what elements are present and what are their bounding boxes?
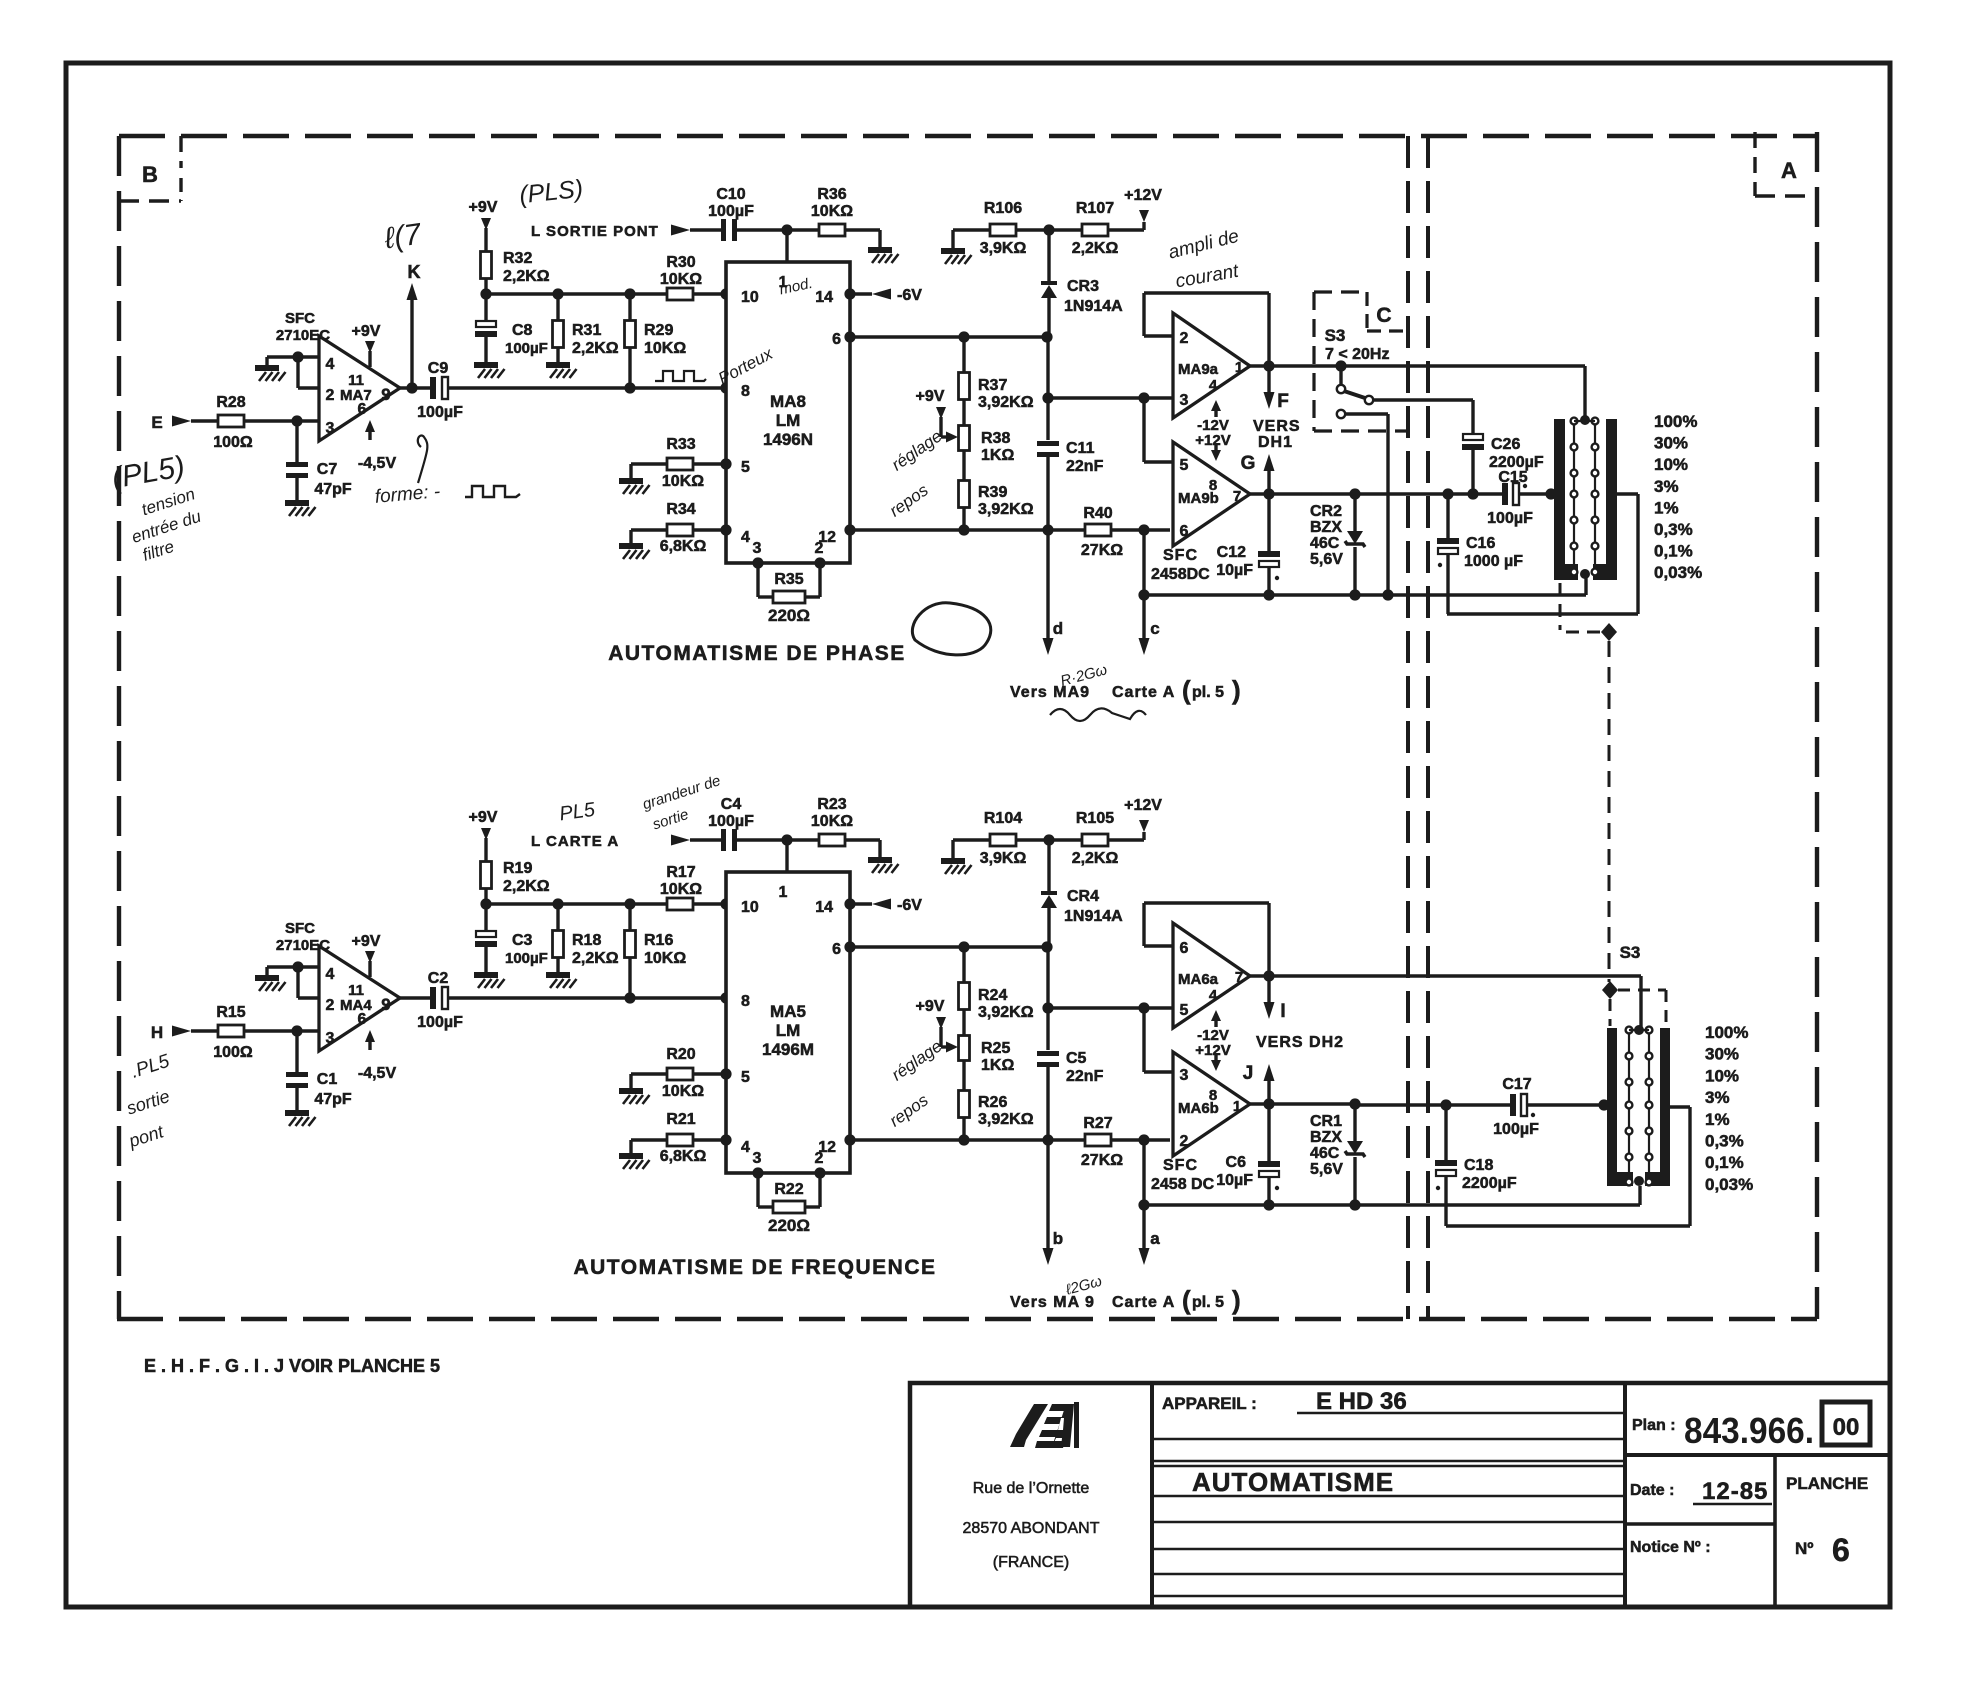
svg-text:6,8KΩ: 6,8KΩ: [660, 538, 707, 555]
svg-text:C12: C12: [1217, 544, 1246, 561]
capacitor C3 100uF (decoupling): [484, 904, 487, 933]
svg-text:R17: R17: [666, 864, 695, 881]
resistor R30 10K (pin10 series): [667, 288, 693, 300]
node at op-amp input: [291, 1025, 302, 1036]
bottom selector contact circles: [1626, 1027, 1633, 1034]
svg-text:2458DC: 2458DC: [1151, 566, 1210, 583]
svg-text:2: 2: [326, 387, 335, 404]
region label B box: [179, 136, 182, 168]
svg-text:VERS DH2: VERS DH2: [1256, 1034, 1344, 1051]
svg-text:R19: R19: [503, 860, 532, 877]
wire R to op-amp pin: [1112, 528, 1170, 531]
svg-text:R15: R15: [216, 1004, 245, 1021]
svg-text:R39: R39: [978, 484, 1007, 501]
capacitor C2 100uF (coupling): [430, 987, 436, 1009]
svg-text:MA7: MA7: [340, 387, 372, 404]
capacitor C5 22nF: [1046, 947, 1049, 1050]
svg-text:C16: C16: [1466, 535, 1495, 552]
wire to diode node: [1016, 838, 1082, 841]
svg-text:2,2KΩ: 2,2KΩ: [572, 340, 619, 357]
svg-text:1N914A: 1N914A: [1064, 298, 1123, 315]
svg-text:Vers MA9: Vers MA9: [1010, 684, 1090, 701]
svg-text:220Ω: 220Ω: [768, 1216, 810, 1235]
capacitor C12 10uF: [1267, 494, 1270, 551]
resistor R18 2,2K (vertical shunt): [556, 904, 559, 931]
svg-text:100µF: 100µF: [1493, 1121, 1539, 1138]
capacitor C6 10uF: [1267, 1104, 1270, 1161]
svg-text:5: 5: [1180, 457, 1189, 474]
mechanical link dashes from top selector: [1559, 583, 1562, 630]
svg-text:2: 2: [815, 1150, 824, 1167]
wire MA6b output to C17: [1355, 1103, 1510, 1106]
svg-text:2: 2: [1180, 1133, 1189, 1150]
wire C15 to divider switch: [1519, 492, 1554, 495]
svg-text:22nF: 22nF: [1066, 1068, 1104, 1085]
bus wire to pin 10 resistor: [486, 902, 667, 905]
resistor R15 100 ohm: [218, 1025, 244, 1037]
svg-text:10: 10: [741, 289, 759, 306]
svg-text:100µF: 100µF: [708, 203, 754, 220]
svg-text:47pF: 47pF: [314, 1091, 352, 1108]
svg-text:C1: C1: [317, 1071, 338, 1088]
svg-text:MA8: MA8: [770, 392, 806, 411]
svg-text:10KΩ: 10KΩ: [811, 813, 853, 830]
wire R to bus node: [484, 888, 487, 904]
ground below input capacitor: [285, 500, 309, 506]
bottom selector top node: [1634, 1025, 1644, 1035]
svg-text:1: 1: [1235, 359, 1243, 376]
resistor R32 2,2K (vertical): [481, 252, 492, 279]
wire coupling cap to IC pin 8: [448, 996, 726, 999]
svg-text:3: 3: [753, 1150, 762, 1167]
svg-text:10: 10: [741, 899, 759, 916]
svg-text:4: 4: [741, 1139, 750, 1156]
capacitor C26 2200uF: [1463, 434, 1483, 440]
svg-text:(: (: [1182, 675, 1191, 705]
svg-text:12-85: 12-85: [1702, 1478, 1768, 1505]
svg-text:BZX: BZX: [1310, 519, 1342, 536]
resistor R19 2,2K (vertical): [481, 862, 492, 889]
capacitor C18 2200uF: [1444, 1105, 1447, 1160]
pin 6 node: [844, 941, 855, 952]
svg-text:R104: R104: [984, 810, 1022, 827]
wire MA9a output to S3 and servo: [1269, 364, 1585, 367]
wire coupling cap to IC pin 8: [448, 386, 726, 389]
wire pin 6 bus: [850, 335, 1047, 338]
svg-text:L CARTE A: L CARTE A: [531, 833, 619, 850]
svg-text:SFC: SFC: [285, 920, 315, 937]
divider switch right contact chain: [1594, 421, 1596, 575]
svg-text:Notice Nº :: Notice Nº :: [1630, 1539, 1711, 1556]
diode CR3 1N914A: [1047, 230, 1050, 281]
resistor R16 10K (vertical to pin 8): [628, 904, 631, 931]
svg-text:2: 2: [1180, 330, 1189, 347]
svg-text:1KΩ: 1KΩ: [981, 1057, 1014, 1074]
svg-text:4: 4: [326, 356, 335, 373]
IC MA5 (LM 1496M): [726, 872, 850, 1173]
svg-text:4: 4: [326, 966, 335, 983]
resistor R23 10K: [819, 834, 845, 846]
svg-text:2,2KΩ: 2,2KΩ: [1072, 240, 1119, 257]
svg-text:3,92KΩ: 3,92KΩ: [978, 1004, 1034, 1021]
resistor R26 3,92K (vertical): [962, 1061, 965, 1091]
op-amp MA6b (lower): [1173, 1052, 1250, 1156]
wire C17 to selector: [1527, 1103, 1607, 1106]
svg-text:R29: R29: [644, 322, 673, 339]
pin 12 bus: [844, 524, 855, 535]
wire cap to R and pin 1 node: [737, 838, 819, 841]
svg-text:47pF: 47pF: [314, 481, 352, 498]
svg-text:C18: C18: [1464, 1157, 1493, 1174]
divider switch left contact chain: [1573, 421, 1575, 575]
svg-text:3%: 3%: [1654, 477, 1679, 496]
handwritten loop doodle: [912, 603, 990, 655]
svg-text:R27: R27: [1083, 1115, 1112, 1132]
svg-text:AUTOMATISME DE PHASE: AUTOMATISME DE PHASE: [608, 642, 906, 665]
svg-text:10KΩ: 10KΩ: [660, 881, 702, 898]
svg-text:100Ω: 100Ω: [213, 434, 253, 451]
svg-text:3: 3: [1180, 392, 1189, 409]
divider switch S3 left winding bar: [1554, 419, 1565, 577]
resistor R106 3,9K: [990, 224, 1016, 236]
ground below shunt resistor: [546, 362, 570, 368]
ground right of top resistor: [868, 857, 892, 863]
LEA logo: [1010, 1402, 1079, 1448]
bottom selector contact chains: [1628, 1030, 1630, 1184]
resistor R33 10K at pin 5: [631, 462, 667, 465]
capacitor C1 47pF: [295, 1031, 298, 1072]
svg-text:APPAREIL :: APPAREIL :: [1162, 1394, 1257, 1413]
svg-text:3%: 3%: [1705, 1088, 1730, 1107]
title block frame: [910, 1383, 1890, 1607]
diode CR4 1N914A: [1047, 840, 1050, 891]
svg-text:100µF: 100µF: [505, 950, 548, 967]
svg-text:R24: R24: [978, 987, 1007, 1004]
resistor R35 220 ohm between pins 3 and 2: [752, 557, 763, 568]
svg-text:E . H . F . G . I . J VOIR: E . H . F . G . I . J VOIR PLANCHE 5: [144, 1356, 440, 1376]
svg-text:2: 2: [326, 997, 335, 1014]
resistor R39 3,92K (vertical): [962, 451, 965, 481]
svg-text:pl. 5: pl. 5: [1192, 684, 1224, 701]
svg-text:MA4: MA4: [340, 997, 372, 1014]
svg-text:Vers MA 9: Vers MA 9: [1010, 1294, 1095, 1311]
resistor R37 3,92K (vertical): [962, 337, 965, 373]
op-amp MA7 (SFC 2710EC): [319, 336, 400, 441]
svg-text:Date :: Date :: [1630, 1482, 1674, 1499]
wire MA6a output to bottom servo: [1269, 974, 1641, 977]
arrow J: [1267, 1078, 1270, 1104]
svg-text:2710EC: 2710EC: [276, 937, 330, 954]
svg-text:C7: C7: [317, 461, 338, 478]
svg-text:L SORTIE PONT: L SORTIE PONT: [531, 223, 659, 240]
op-amp MA9b (lower): [1173, 442, 1250, 546]
svg-text:(FRANCE): (FRANCE): [993, 1554, 1069, 1571]
svg-text:100µF: 100µF: [505, 340, 548, 357]
ground left of 3,9K resistor: [953, 838, 990, 841]
resistor R28 100 ohm: [218, 415, 244, 427]
wire R to ground stub: [845, 838, 880, 841]
svg-text:C9: C9: [428, 360, 449, 377]
svg-text:+12V: +12V: [1195, 1042, 1230, 1059]
handwritten scribble under Carte A (top): [1050, 708, 1146, 721]
ground at pin-4 resistor: [619, 1153, 643, 1159]
divider switch contact circles: [1571, 418, 1578, 425]
svg-text:R26: R26: [978, 1094, 1007, 1111]
bottom rail riser to selector: [1638, 1186, 1641, 1205]
wire pin4 to pin2 link: [296, 967, 299, 998]
svg-text:AUTOMATISME DE FREQUENCE: AUTOMATISME DE FREQUENCE: [573, 1256, 936, 1279]
svg-text:9: 9: [381, 385, 390, 404]
svg-text:10KΩ: 10KΩ: [660, 271, 702, 288]
svg-text:C2: C2: [428, 970, 449, 987]
svg-text:R35: R35: [774, 571, 803, 588]
svg-text:7: 7: [1233, 488, 1241, 505]
svg-text:2458 DC: 2458 DC: [1151, 1176, 1215, 1193]
arrow F vers DH: [1267, 366, 1270, 395]
link to lower op-amp + input: [1142, 1008, 1145, 1072]
svg-text:8: 8: [1209, 1087, 1217, 1104]
mechanical link fork dashes: [1609, 999, 1612, 1026]
op-amp MA9a (upper): [1173, 313, 1250, 418]
svg-text:R16: R16: [644, 932, 673, 949]
region label A box: [1753, 132, 1756, 196]
bus wire to pin 10 resistor: [486, 292, 667, 295]
svg-text:PLANCHE: PLANCHE: [1786, 1474, 1868, 1493]
svg-text:E: E: [151, 413, 162, 432]
svg-text:7: 7: [1235, 969, 1243, 986]
svg-text:R107: R107: [1076, 200, 1114, 217]
potentiometer R38 1K: [962, 400, 965, 426]
potentiometer R25 1K: [962, 1010, 965, 1036]
svg-text:1000 µF: 1000 µF: [1464, 553, 1523, 570]
op-amp MA6b output wire: [1250, 1102, 1355, 1105]
svg-text:1N914A: 1N914A: [1064, 908, 1123, 925]
title block divider appareil|plan: [1623, 1383, 1627, 1607]
wire input to R: [191, 1029, 218, 1032]
title block divider date|planche: [1773, 1455, 1777, 1607]
capacitor C17 100uF: [1510, 1094, 1516, 1116]
svg-text:27KΩ: 27KΩ: [1081, 1152, 1123, 1169]
wire cap to R and pin 1 node: [737, 228, 819, 231]
arrow K (to planche 5): [410, 297, 413, 388]
svg-text:3: 3: [753, 540, 762, 557]
mechanical link diamond node: [1601, 623, 1617, 641]
svg-text:R33: R33: [666, 436, 695, 453]
rail to divider bottom: [1584, 577, 1587, 595]
square wave doodle near pin 8: [655, 371, 706, 381]
wire R to op-amp pin 3: [244, 419, 319, 422]
pin 14 -6V stub: [844, 898, 855, 909]
svg-text:6,8KΩ: 6,8KΩ: [660, 1148, 707, 1165]
svg-text:R40: R40: [1083, 505, 1112, 522]
ground at pin-4 resistor: [619, 543, 643, 549]
svg-text:Nº: Nº: [1795, 1539, 1814, 1558]
svg-text:220Ω: 220Ω: [768, 606, 810, 625]
svg-text:3: 3: [326, 1030, 335, 1047]
svg-text:C3: C3: [512, 932, 533, 949]
svg-text:3,92KΩ: 3,92KΩ: [978, 394, 1034, 411]
dashed separator line 1 (region B right edge): [1406, 136, 1410, 1319]
svg-text:H: H: [151, 1023, 163, 1042]
resistor R31 2,2K (vertical shunt): [556, 294, 559, 321]
svg-text:C4: C4: [721, 796, 742, 813]
svg-text:1: 1: [779, 884, 788, 901]
pin 6 node: [844, 331, 855, 342]
svg-text:2200µF: 2200µF: [1462, 1175, 1517, 1192]
capacitor C11 22nF: [1046, 337, 1049, 440]
resistor R24 3,92K (vertical): [962, 947, 965, 983]
svg-text:10KΩ: 10KΩ: [811, 203, 853, 220]
svg-text:R34: R34: [666, 501, 695, 518]
svg-text:d: d: [1053, 619, 1063, 638]
IC MA8 (LM 1496N): [726, 262, 850, 563]
svg-text:R36: R36: [817, 186, 846, 203]
svg-text:K: K: [408, 262, 421, 282]
svg-text:100µF: 100µF: [1487, 510, 1533, 527]
svg-text:J: J: [1243, 1063, 1254, 1084]
svg-text:9: 9: [381, 995, 390, 1014]
wire to series cap: [690, 228, 721, 231]
svg-text:+9V: +9V: [352, 933, 381, 950]
svg-text:30%: 30%: [1654, 434, 1688, 453]
svg-text:46C: 46C: [1310, 1145, 1340, 1162]
wire middle contact to C26: [1374, 398, 1473, 401]
svg-text:1496M: 1496M: [762, 1040, 814, 1059]
resistor R17 10K (pin10 series): [667, 898, 693, 910]
svg-text:14: 14: [815, 899, 833, 916]
svg-text:LM: LM: [776, 411, 801, 430]
wire R to ground stub: [845, 228, 880, 231]
svg-text:2,2KΩ: 2,2KΩ: [572, 950, 619, 967]
svg-text:R25: R25: [981, 1040, 1010, 1057]
switch S3 middle contact: [1365, 396, 1373, 404]
ground right of top resistor: [868, 247, 892, 253]
svg-text:R105: R105: [1076, 810, 1114, 827]
svg-text:AUTOMATISME: AUTOMATISME: [1192, 1467, 1394, 1497]
capacitor C15 100uF: [1502, 483, 1508, 505]
svg-text:8: 8: [1209, 477, 1217, 494]
svg-text:0,03%: 0,03%: [1654, 563, 1702, 582]
svg-text:0,1%: 0,1%: [1705, 1153, 1744, 1172]
resistor R34 6,8K at pin 4: [631, 528, 667, 531]
svg-text:10KΩ: 10KΩ: [644, 950, 686, 967]
switch S3 upper contact: [1339, 366, 1342, 384]
svg-text:a: a: [1150, 1229, 1160, 1248]
wire IC pin 1: [785, 230, 788, 262]
svg-text:+9V: +9V: [469, 809, 498, 826]
svg-text:6: 6: [1180, 523, 1189, 540]
svg-text:2,2KΩ: 2,2KΩ: [503, 878, 550, 895]
svg-text:3: 3: [1180, 1067, 1189, 1084]
wire lower contact to rail: [1346, 412, 1388, 415]
svg-text:4: 4: [1209, 987, 1218, 1004]
svg-text:R21: R21: [666, 1111, 695, 1128]
svg-text:E HD 36: E HD 36: [1316, 1388, 1407, 1415]
svg-text:28570 ABONDANT: 28570 ABONDANT: [963, 1520, 1100, 1537]
wire MA9b output to C15: [1355, 492, 1502, 495]
arrow I vers DH: [1267, 976, 1270, 1005]
svg-text:2,2KΩ: 2,2KΩ: [1072, 850, 1119, 867]
svg-text:C5: C5: [1066, 1050, 1087, 1067]
link to lower op-amp + input: [1142, 398, 1145, 462]
wire to +12V arrow: [1108, 228, 1144, 231]
resistor R21 6,8K at pin 4: [631, 1138, 667, 1141]
wire inverting input to divider: [1048, 1006, 1173, 1009]
svg-text:1KΩ: 1KΩ: [981, 447, 1014, 464]
svg-text:4: 4: [1209, 377, 1218, 394]
wire input to R: [191, 419, 218, 422]
resistor R20 10K at pin 5: [631, 1072, 667, 1075]
svg-text:00: 00: [1833, 1414, 1860, 1441]
svg-text:R31: R31: [572, 322, 601, 339]
svg-text:C10: C10: [716, 186, 745, 203]
svg-text:100Ω: 100Ω: [213, 1044, 253, 1061]
svg-text:pl. 5: pl. 5: [1192, 1294, 1224, 1311]
wire R to op-amp pin 3: [244, 1029, 319, 1032]
svg-text:0,3%: 0,3%: [1705, 1132, 1744, 1151]
resistor R27 27K: [1085, 1134, 1111, 1146]
svg-text:S3: S3: [1325, 326, 1346, 345]
capacitor C16 1000uF: [1446, 494, 1449, 538]
svg-text:CR4: CR4: [1067, 888, 1099, 905]
appareil ruled lines: [1297, 1412, 1625, 1414]
svg-text:SFC: SFC: [1163, 547, 1198, 564]
svg-text:3,9KΩ: 3,9KΩ: [980, 240, 1027, 257]
resistor R36 10K: [819, 224, 845, 236]
pin 12 bus: [844, 1134, 855, 1145]
svg-text:DH1: DH1: [1258, 434, 1293, 451]
svg-text:Rue de l’Ornette: Rue de l’Ornette: [973, 1480, 1090, 1497]
svg-text:R37: R37: [978, 377, 1007, 394]
dashed region border: [119, 134, 1817, 138]
wire IC pin 1: [785, 840, 788, 872]
arrows to carte A: [1138, 589, 1149, 600]
capacitor C10 100uF (series): [721, 219, 726, 241]
svg-text:7 < 20Hz: 7 < 20Hz: [1325, 346, 1389, 363]
resistor R22 220 ohm between pins 3 and 2: [752, 1167, 763, 1178]
node K branch: [406, 382, 417, 393]
op-amp MA9a output wire: [1250, 364, 1269, 367]
svg-text:R22: R22: [774, 1181, 803, 1198]
svg-text:ℓ(7: ℓ(7: [381, 218, 424, 256]
svg-text:C26: C26: [1491, 436, 1520, 453]
svg-text:R28: R28: [216, 394, 245, 411]
svg-text:3,9KΩ: 3,9KΩ: [980, 850, 1027, 867]
svg-text:+12V: +12V: [1195, 432, 1230, 449]
feedback bracket upper op-amp: [1144, 334, 1173, 337]
svg-text:Carte A: Carte A: [1112, 1294, 1175, 1311]
svg-text:R30: R30: [666, 254, 695, 271]
wire pin 6 bus: [850, 945, 1047, 948]
svg-text:5: 5: [1180, 1002, 1189, 1019]
svg-text:I: I: [1280, 1001, 1285, 1022]
svg-text:6: 6: [1832, 1532, 1850, 1568]
loop from right winding to C16: [1617, 492, 1638, 495]
svg-text:SFC: SFC: [285, 310, 315, 327]
svg-text:C8: C8: [512, 322, 533, 339]
divider switch top node: [1580, 415, 1590, 425]
svg-text:+12V: +12V: [1124, 797, 1162, 814]
svg-text:-6V: -6V: [897, 897, 922, 914]
divider switch bottom feet: [1554, 564, 1578, 580]
ground below decoupling cap: [474, 972, 498, 978]
svg-text:+9V: +9V: [916, 388, 945, 405]
svg-text:6: 6: [832, 331, 841, 348]
svg-text:1: 1: [1233, 1098, 1241, 1115]
svg-text:R20: R20: [666, 1046, 695, 1063]
svg-text:-4,5V: -4,5V: [358, 1065, 397, 1082]
svg-text:0,03%: 0,03%: [1705, 1175, 1753, 1194]
